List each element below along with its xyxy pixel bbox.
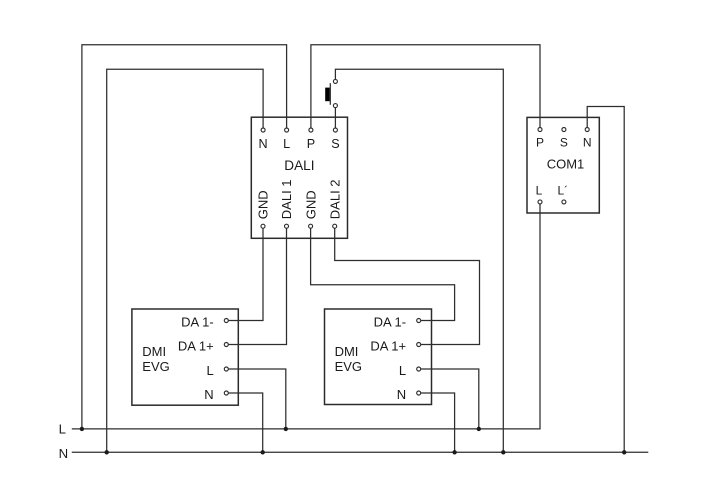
- svg-text:N: N: [397, 387, 406, 402]
- junction dot N bus / N riser: [105, 450, 109, 454]
- svg-text:L: L: [59, 422, 66, 437]
- svg-text:GND: GND: [256, 190, 271, 219]
- svg-text:L: L: [536, 184, 543, 198]
- junction dot L bus / EVG2 L: [477, 427, 481, 431]
- terminal circle DALI 1: [285, 224, 289, 228]
- svg-text:N: N: [583, 135, 592, 149]
- svg-text:L: L: [399, 363, 406, 378]
- svg-text:S: S: [331, 137, 339, 151]
- wire N riser from N bus to inner top run feeding DALI N: [107, 69, 263, 452]
- terminal circle COM1 L': [562, 200, 566, 204]
- svg-text:L: L: [283, 137, 290, 151]
- terminal circle COM1 N: [585, 128, 589, 132]
- svg-text:L: L: [206, 363, 213, 378]
- wire N bus: [72, 451, 649, 453]
- terminal circle EVG2 L: [417, 367, 421, 371]
- terminal circle EVG1 DA 1+: [224, 343, 228, 347]
- terminal circle EVG2 DA 1+: [417, 343, 421, 347]
- svg-text:N: N: [204, 387, 213, 402]
- wire DALI P to COM1 P along top: [311, 45, 540, 130]
- junction dot L bus / EVG1 L: [284, 427, 288, 431]
- wire EVG1 N to N bus: [226, 393, 262, 452]
- wire EVG2 N to N bus: [419, 393, 455, 452]
- DALI power supply box U1: [251, 117, 347, 238]
- terminal circle COM1 L: [538, 200, 542, 204]
- svg-text:DA 1-: DA 1-: [181, 314, 214, 329]
- terminal circle EVG1 L: [224, 367, 228, 371]
- svg-text:DMI: DMI: [335, 344, 359, 359]
- terminal circle EVG2 DA 1-: [417, 319, 421, 323]
- wire DALI 2 to EVG2 DA 1+: [335, 226, 480, 344]
- svg-text:GND: GND: [303, 190, 318, 219]
- svg-text:N: N: [259, 137, 268, 151]
- COM1 box U2: [527, 117, 599, 213]
- svg-text:DA 1-: DA 1-: [374, 314, 407, 329]
- push button S1 contact bar: [329, 83, 331, 105]
- svg-text:L´: L´: [557, 184, 568, 198]
- svg-text:DALI 1: DALI 1: [279, 179, 294, 219]
- switch S1 bottom terminal circle: [333, 104, 337, 108]
- wire EVG1 L to L bus: [226, 369, 285, 429]
- junction dot N bus / switch wire: [501, 450, 505, 454]
- terminal circle DALI S: [333, 128, 337, 132]
- wire DALI S stem to switch: [334, 106, 336, 130]
- switch S1 top terminal circle: [333, 79, 337, 83]
- push button S1 actuator: [325, 88, 330, 102]
- terminal circle COM1 P: [538, 128, 542, 132]
- junction dot L bus / L riser: [80, 427, 84, 431]
- wire L bus with riser to COM1 L: [72, 202, 540, 429]
- svg-text:COM1: COM1: [547, 157, 585, 172]
- terminal circle DALI 2: [333, 224, 337, 228]
- terminal circle DALI GND1: [261, 224, 265, 228]
- svg-text:EVG: EVG: [142, 359, 169, 374]
- svg-text:P: P: [536, 135, 544, 149]
- svg-text:DALI: DALI: [284, 158, 314, 173]
- terminal circle DALI N: [261, 128, 265, 132]
- DMI EVG ballast box U4 (right): [325, 309, 432, 405]
- terminal circle EVG1 DA 1-: [224, 319, 228, 323]
- DMI EVG ballast box U3 (left): [132, 309, 238, 405]
- wire L riser from L bus to top run feeding DALI L: [82, 45, 287, 429]
- svg-text:DA 1+: DA 1+: [370, 338, 406, 353]
- terminal circle EVG1 N: [224, 391, 228, 395]
- wire DALI 1 to EVG1 DA 1+: [226, 226, 286, 344]
- wire EVG2 L to L bus: [419, 369, 479, 429]
- svg-text:P: P: [307, 137, 315, 151]
- svg-text:N: N: [59, 446, 69, 461]
- svg-text:DMI: DMI: [142, 344, 166, 359]
- wire switch top to N bus: [335, 69, 503, 452]
- junction dot N bus / EVG2 N: [452, 450, 456, 454]
- junction dot N bus / COM1 N: [622, 450, 626, 454]
- terminal circle COM1 S: [562, 128, 566, 132]
- wire DALI GND1 to EVG1 DA 1-: [226, 226, 263, 320]
- junction dot N bus / EVG1 N: [261, 450, 265, 454]
- svg-text:DALI 2: DALI 2: [327, 179, 342, 219]
- svg-text:DA 1+: DA 1+: [178, 338, 214, 353]
- terminal circle EVG2 N: [417, 391, 421, 395]
- terminal circle DALI L: [285, 128, 289, 132]
- wire DALI GND2 to EVG2 DA 1-: [311, 226, 455, 320]
- terminal circle DALI P: [309, 128, 313, 132]
- svg-text:S: S: [560, 135, 568, 149]
- wire COM1 N to N bus: [587, 107, 624, 453]
- terminal circle DALI GND2: [309, 224, 313, 228]
- svg-text:EVG: EVG: [335, 359, 362, 374]
